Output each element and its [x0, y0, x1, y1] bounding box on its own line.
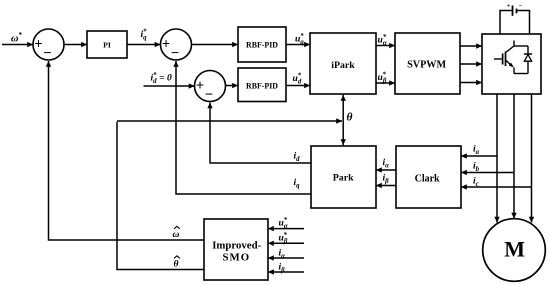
wire phase a vertical	[496, 94, 498, 223]
block RBF-PID U2	[238, 68, 286, 102]
wire battery loop left	[500, 11, 512, 35]
svg-text:id* = 0: id* = 0	[151, 72, 172, 85]
wire SVPWM to inverter bottom	[460, 82, 482, 84]
svg-text:ω: ω	[173, 229, 180, 240]
block Improved-SMO	[204, 219, 268, 280]
wire Clark to Park i-beta	[376, 173, 396, 186]
svg-text:−: −	[171, 46, 179, 62]
wire iq feedback to S2	[176, 61, 311, 194]
svg-text:−: −	[519, 3, 523, 10]
node omega* input label	[11, 32, 22, 45]
svg-text:Improved-: Improved-	[212, 240, 261, 252]
wire iPark to SVPWM ua*	[376, 34, 395, 47]
wire battery loop right	[517, 11, 529, 35]
summing junction S3	[195, 71, 226, 104]
wire S1 to PI	[64, 44, 87, 46]
svg-text:+: +	[34, 37, 42, 53]
svg-text:PI: PI	[103, 41, 111, 50]
wire ub* stub into SMO	[268, 232, 304, 245]
summing junction S1	[33, 29, 64, 62]
summing junction S2	[161, 29, 192, 62]
block SVPWM	[395, 33, 460, 94]
wire theta-hat feedback to theta junction	[117, 122, 204, 270]
svg-text:+: +	[507, 3, 511, 10]
block PI	[87, 31, 127, 58]
wire SVPWM to inverter middle	[460, 63, 482, 65]
wire RBF-PID2 to iPark with ud* label	[286, 72, 310, 85]
svg-text:uβ*: uβ*	[279, 232, 288, 245]
svg-text:SVPWM: SVPWM	[407, 59, 446, 70]
block iPark	[310, 33, 376, 94]
block RBF-PID U1	[238, 27, 286, 62]
svg-text:iq*: iq*	[141, 28, 148, 41]
wire ic to Clark	[461, 176, 532, 188]
wire PI to S2 with iq* label	[127, 28, 161, 44]
wire phase c vertical	[531, 94, 533, 223]
svg-text:−: −	[205, 87, 213, 103]
svg-text:uq*: uq*	[295, 33, 304, 46]
block Clark	[396, 146, 461, 208]
svg-text:θ: θ	[347, 112, 353, 124]
wire id feedback to S3	[210, 103, 311, 164]
svg-text:Clark: Clark	[415, 173, 440, 184]
svg-text:+: +	[196, 78, 204, 94]
wire ib to Clark	[461, 161, 514, 173]
wire S3 to RBF-PID2	[226, 85, 239, 87]
wire theta down to Park	[342, 121, 344, 145]
block inverter	[482, 34, 541, 94]
svg-text:Park: Park	[333, 173, 354, 184]
wire Clark to Park i-alpha	[376, 157, 396, 170]
wire omega* input arrow	[2, 44, 33, 46]
wire omega-hat feedback to S1	[49, 61, 205, 240]
svg-text:ud*: ud*	[293, 72, 302, 85]
svg-text:uα*: uα*	[279, 217, 288, 230]
svg-text:iPark: iPark	[331, 60, 355, 71]
diode D1	[524, 46, 532, 74]
wire SVPWM to inverter top	[460, 45, 482, 47]
block Park	[311, 146, 376, 208]
wire ia to Clark	[461, 144, 497, 157]
wire i-beta stub into SMO	[268, 262, 304, 274]
wire phase b vertical	[513, 94, 515, 219]
transistor Q1 IGBT	[494, 41, 528, 74]
wire RBF-PID1 to iPark with uq* label	[286, 33, 310, 46]
motor M	[483, 219, 546, 282]
wire iPark to SVPWM ub*	[376, 71, 395, 84]
svg-text:SMO: SMO	[223, 252, 251, 264]
wire id*=0 input arrow to S3	[144, 85, 195, 87]
svg-text:θ: θ	[174, 259, 179, 270]
svg-text:−: −	[43, 46, 51, 62]
wire theta horizontal into junction	[117, 120, 342, 122]
svg-text:uβ*: uβ*	[378, 71, 387, 84]
battery V1	[507, 3, 523, 16]
wire ua* stub into SMO	[268, 217, 304, 230]
wire i-alpha stub into SMO	[268, 248, 304, 260]
node id*=0 label	[151, 72, 172, 85]
svg-text:RBF-PID: RBF-PID	[246, 40, 278, 49]
svg-text:M: M	[504, 237, 525, 262]
svg-text:RBF-PID: RBF-PID	[246, 81, 278, 90]
svg-text:+: +	[162, 37, 170, 53]
wire S2 to RBF-PID1	[192, 44, 239, 46]
svg-text:uα*: uα*	[378, 34, 387, 47]
wire theta up to iPark	[342, 95, 344, 121]
